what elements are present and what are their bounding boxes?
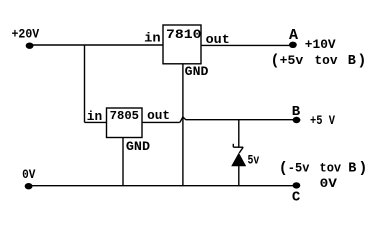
svg-text:out: out [147,108,170,123]
node C [292,182,301,205]
svg-text:(: ( [271,53,280,70]
wire U2 out left segment [142,121,180,123]
svg-text:in: in [144,31,161,46]
wire stub into U2 in [85,121,108,123]
wire branch down to U2 in [84,45,86,122]
svg-text:5v: 5v [248,153,260,168]
wire U1 GND down to 0V rail [182,64,184,186]
svg-text:in: in [87,109,103,124]
regulator U1 7810 [163,25,202,64]
svg-text:-5v: -5v [288,160,310,175]
svg-text:): ) [357,53,366,70]
svg-text:): ) [358,160,367,177]
svg-text:0V: 0V [22,167,35,182]
svg-text:tov: tov [320,160,342,175]
wire U1 out to node A [201,44,293,46]
svg-text:C: C [292,190,301,204]
zener diode D1 [231,144,246,166]
wire U2 out to node B [186,119,297,121]
svg-text:+20V: +20V [12,27,40,42]
svg-text:B: B [348,161,356,176]
wire U2 GND down to 0V rail [122,138,124,186]
label (+5v tov B) [271,53,367,70]
node +20V terminal [26,43,34,49]
svg-text:GND: GND [185,64,209,79]
svg-text:+5v: +5v [280,53,304,68]
wire hop over U1 GND line [180,117,186,122]
svg-text:+5 V: +5 V [310,113,335,128]
svg-text:7805: 7805 [110,109,139,123]
label (-5v tov B) [279,160,368,177]
svg-text:(: ( [279,160,288,177]
wire 0V rail [29,185,297,187]
svg-text:B: B [348,54,356,69]
node A [289,27,298,48]
svg-text:0V: 0V [320,176,338,191]
node 0V terminal [25,183,33,189]
svg-text:GND: GND [126,139,150,154]
node B [292,104,301,123]
regulator U2 7805 [107,108,143,138]
wire zener to 0V rail [238,166,240,186]
wire +20V rail to U1 in [30,44,164,46]
svg-text:7810: 7810 [166,27,202,42]
svg-text:+10V: +10V [305,37,336,52]
svg-text:tov: tov [315,53,338,68]
wire node B branch down to zener [238,120,240,148]
svg-text:A: A [289,27,298,44]
